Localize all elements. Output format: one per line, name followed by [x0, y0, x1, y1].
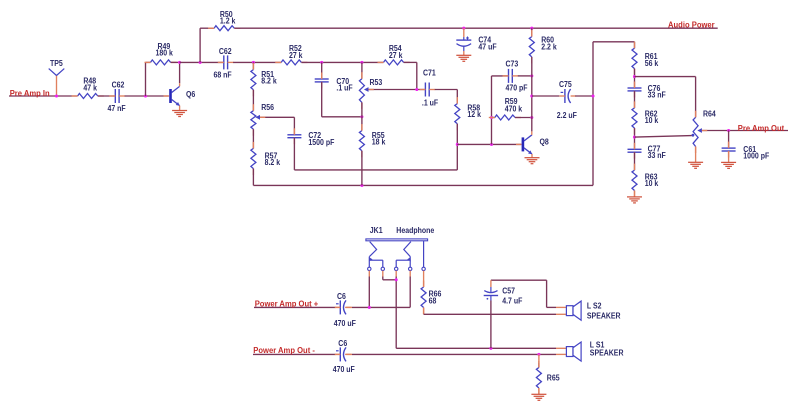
- svg-text:Q8: Q8: [540, 137, 550, 147]
- svg-text:C6: C6: [337, 291, 346, 301]
- svg-text:47 uF: 47 uF: [478, 42, 496, 52]
- svg-text:12 k: 12 k: [467, 109, 481, 119]
- svg-text:.1 uF: .1 uF: [422, 98, 439, 108]
- svg-text:C6: C6: [338, 339, 347, 349]
- svg-text:68 nF: 68 nF: [214, 70, 232, 80]
- svg-text:R65: R65: [547, 373, 560, 383]
- svg-text:C75: C75: [559, 79, 572, 89]
- svg-text:Power Amp Out -: Power Amp Out -: [253, 346, 315, 355]
- svg-text:TP5: TP5: [50, 59, 63, 69]
- svg-text:R53: R53: [370, 77, 383, 87]
- svg-text:68: 68: [429, 296, 437, 306]
- svg-text:1500 pF: 1500 pF: [308, 137, 334, 147]
- svg-text:C62: C62: [112, 80, 125, 90]
- svg-text:10 k: 10 k: [645, 178, 659, 188]
- svg-text:33 nF: 33 nF: [648, 90, 666, 100]
- svg-text:SPEAKER: SPEAKER: [590, 348, 624, 358]
- svg-text:SPEAKER: SPEAKER: [587, 311, 621, 321]
- svg-text:Power Amp Out +: Power Amp Out +: [255, 299, 319, 308]
- svg-text:Pre Amp Out: Pre Amp Out: [738, 124, 785, 133]
- svg-text:R64: R64: [703, 109, 716, 119]
- svg-text:Pre Amp In: Pre Amp In: [10, 89, 50, 98]
- svg-text:47 nF: 47 nF: [108, 103, 126, 113]
- svg-text:470 uF: 470 uF: [334, 318, 356, 328]
- svg-text:C57: C57: [502, 286, 515, 296]
- svg-text:47 k: 47 k: [83, 83, 97, 93]
- svg-text:Q6: Q6: [186, 90, 195, 100]
- svg-text:Headphone: Headphone: [396, 226, 434, 236]
- svg-text:1.2 k: 1.2 k: [220, 16, 236, 26]
- svg-text:18 k: 18 k: [372, 137, 386, 147]
- svg-text:2.2 k: 2.2 k: [541, 42, 557, 52]
- svg-text:C73: C73: [506, 59, 519, 69]
- svg-text:470 k: 470 k: [505, 104, 523, 114]
- svg-text:2.2 uF: 2.2 uF: [557, 110, 577, 120]
- svg-text:8.2 k: 8.2 k: [261, 76, 277, 86]
- svg-text:.1 uF: .1 uF: [336, 83, 353, 93]
- svg-text:180 k: 180 k: [156, 48, 174, 58]
- svg-text:C62: C62: [219, 46, 232, 56]
- svg-text:4.7 uF: 4.7 uF: [502, 296, 522, 306]
- svg-text:1000 pF: 1000 pF: [743, 151, 769, 161]
- svg-text:8.2 k: 8.2 k: [265, 158, 281, 168]
- svg-text:470 uF: 470 uF: [333, 365, 355, 375]
- svg-text:470 pF: 470 pF: [506, 83, 528, 93]
- svg-text:56 k: 56 k: [645, 58, 659, 68]
- svg-text:10 k: 10 k: [645, 116, 659, 126]
- svg-text:L S2: L S2: [587, 301, 602, 311]
- svg-text:C71: C71: [423, 68, 436, 78]
- svg-text:JK1: JK1: [370, 226, 383, 236]
- svg-text:33 nF: 33 nF: [648, 151, 666, 161]
- svg-text:R56: R56: [261, 102, 274, 112]
- svg-text:Audio Power: Audio Power: [668, 20, 715, 29]
- svg-text:27 k: 27 k: [289, 50, 303, 60]
- svg-text:27 k: 27 k: [389, 50, 403, 60]
